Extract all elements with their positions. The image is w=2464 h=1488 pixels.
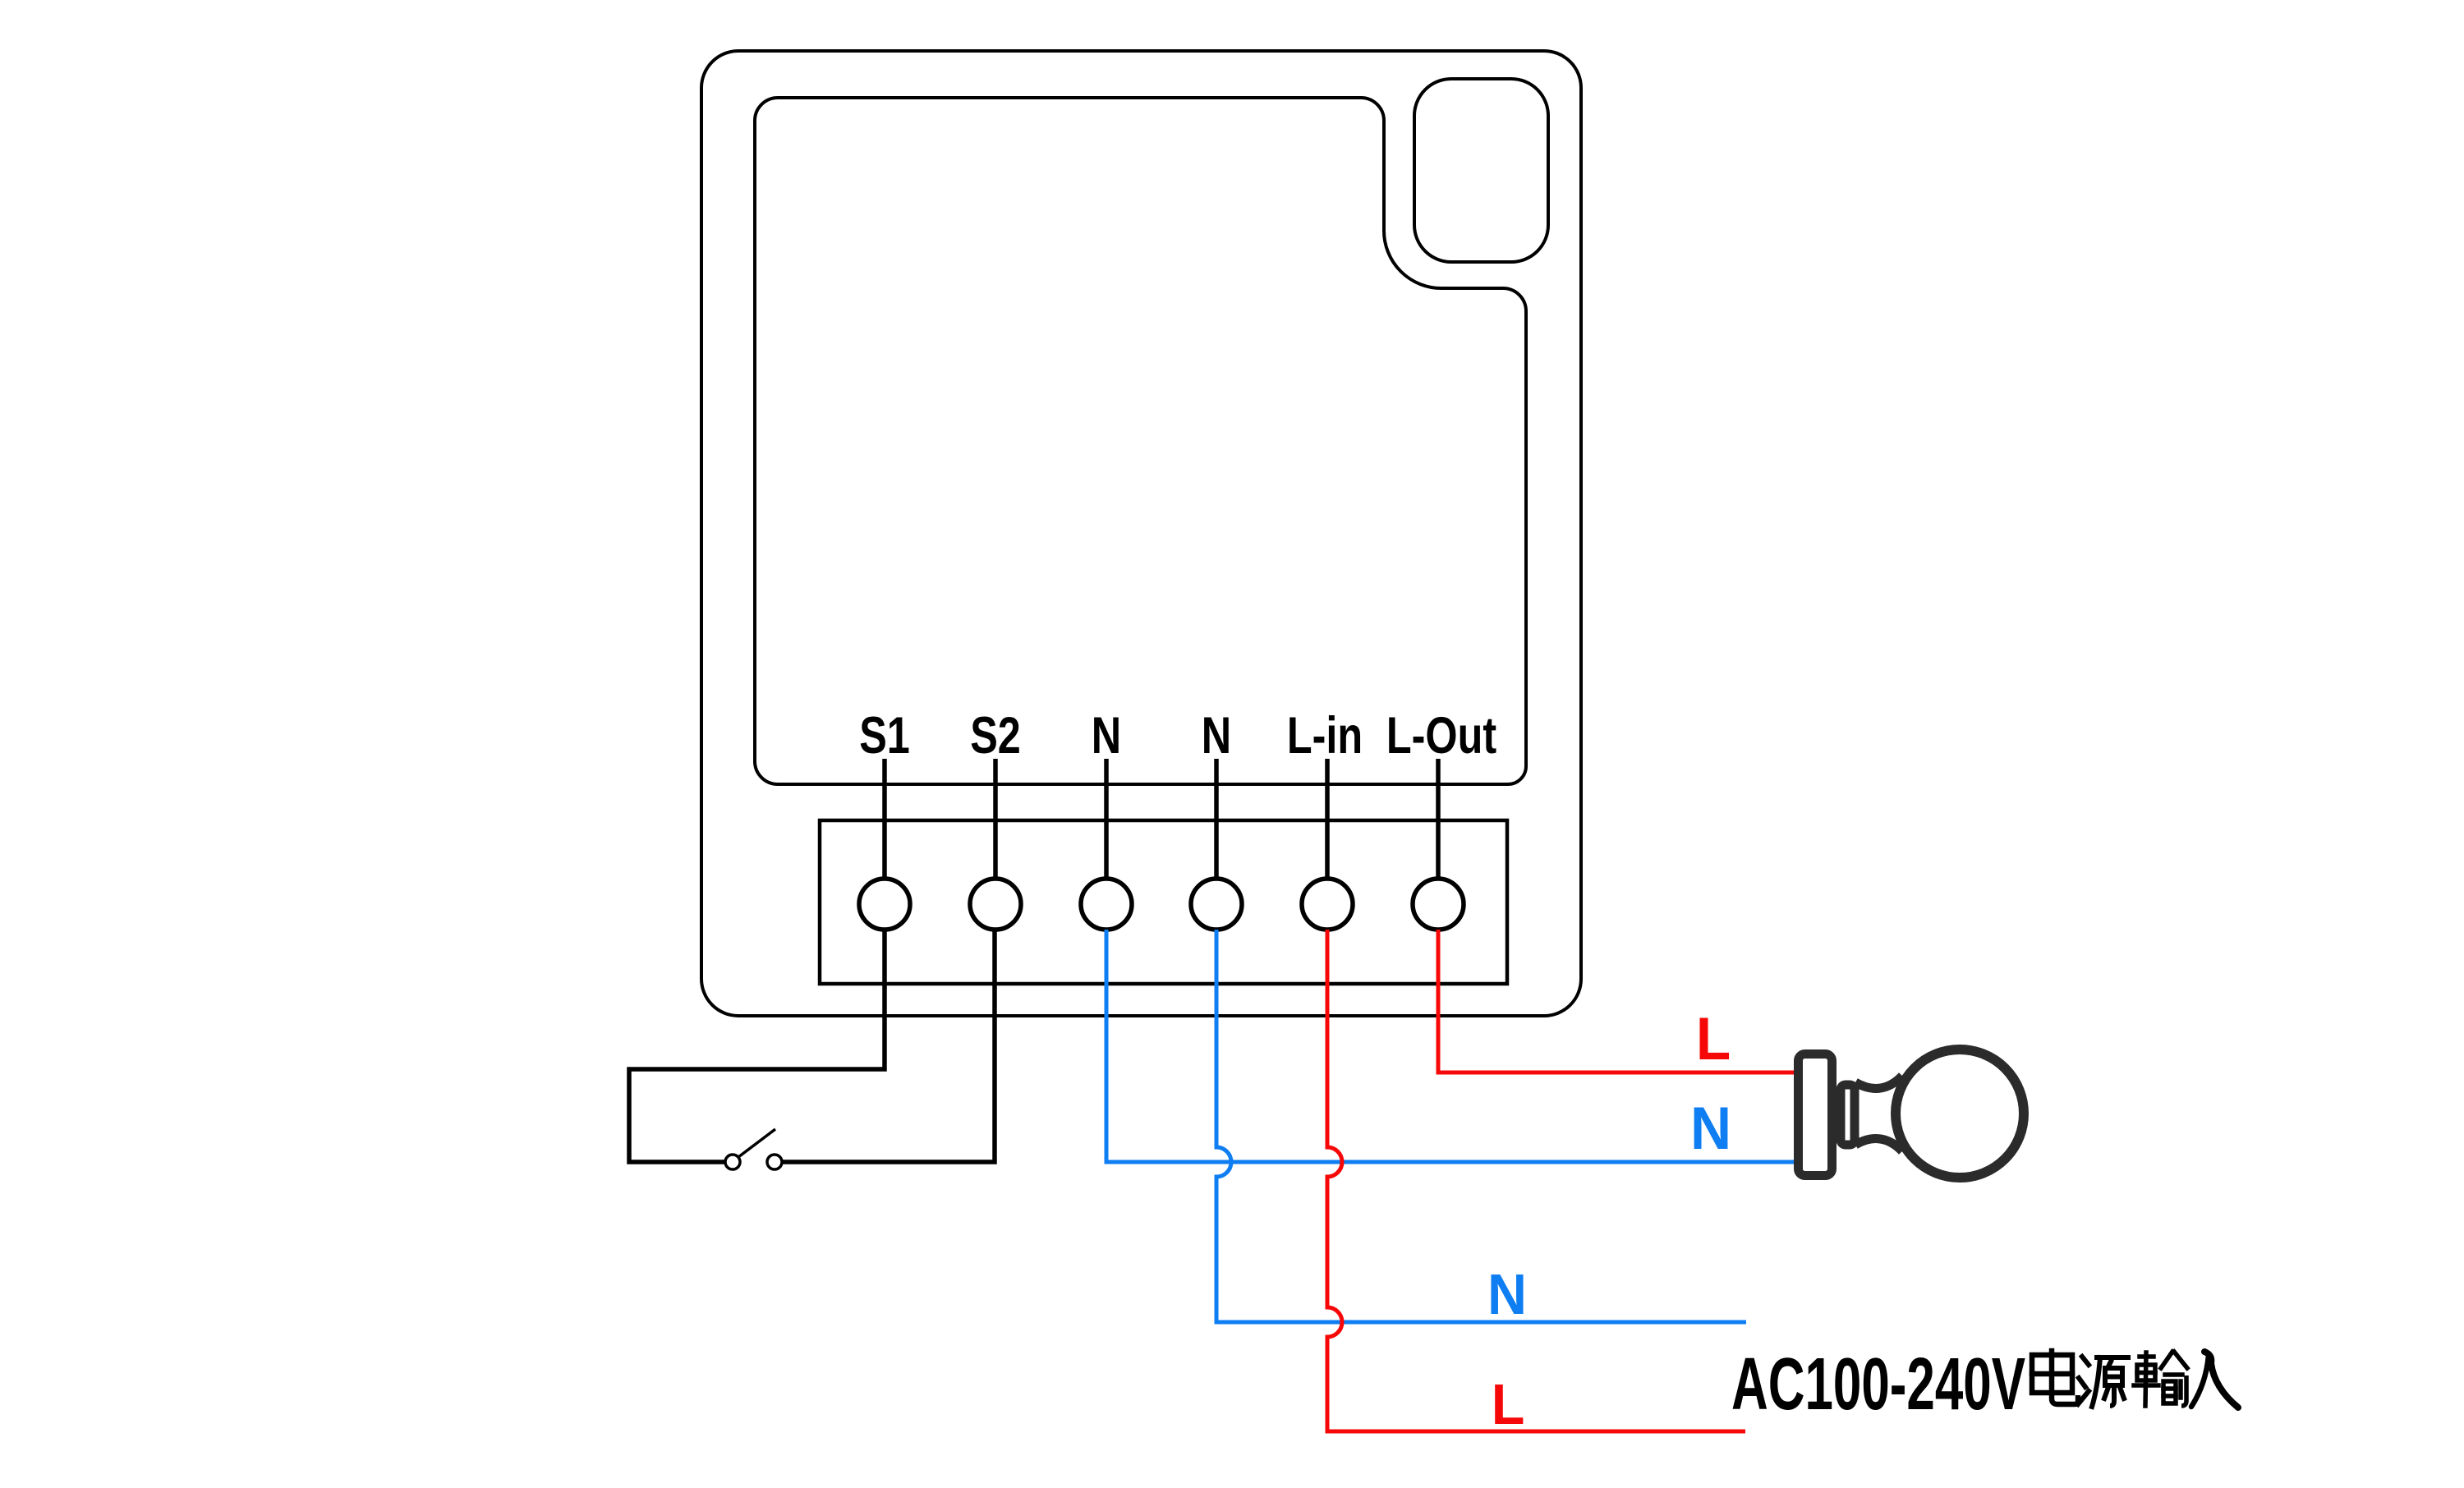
wire N (terminal 4) to AC neutral, with hop [1216,930,1746,1322]
AC supply caption: hanzi 输 [2134,1352,2187,1406]
svg-text:L-in: L-in [1287,707,1363,765]
svg-text:AC100-240V: AC100-240V [1731,1343,2025,1426]
wire L-in to AC live, with two hops [1327,930,1745,1431]
terminal screw S2 [970,879,1021,930]
svg-text:N: N [1202,707,1231,765]
svg-text:L-Out: L-Out [1386,707,1496,765]
svg-text:N: N [1487,1262,1527,1326]
terminal stub S2 [993,759,998,879]
AC supply caption: hanzi 入 [2191,1352,2238,1408]
relay module inner case outline [755,98,1526,784]
terminal stub N4 [1214,759,1219,879]
switch SW1 lever [738,1129,775,1157]
svg-text:N: N [1092,707,1121,765]
terminal screw L-in [1302,879,1353,930]
wire S1 to switch [629,930,885,1162]
AC supply caption: hanzi 电 [2032,1351,2078,1404]
terminal block [820,820,1507,984]
terminal screw N3 [1081,879,1132,930]
svg-text:L: L [1696,1006,1731,1072]
terminal screw N4 [1191,879,1242,930]
reset button capsule [1414,79,1548,262]
switch SW1 left contact [725,1155,740,1169]
svg-text:N: N [1690,1095,1731,1162]
wire N (terminal 3) to lamp neutral [1106,930,1795,1162]
terminal stub L-Out [1436,759,1441,879]
terminal stub N3 [1104,759,1109,879]
relay module outer case U1 [701,51,1581,1016]
switch SW1 right contact [767,1155,782,1169]
terminal screw S1 [859,879,910,930]
AC supply caption: hanzi 源 [2078,1357,2128,1407]
svg-text:S2: S2 [970,707,1021,765]
svg-text:L: L [1492,1372,1525,1436]
wire switch to S2 [782,930,995,1162]
lamp DS1 (bulb icon) [1799,1049,2025,1178]
terminal stub S1 [882,759,887,879]
svg-text:S1: S1 [859,707,910,765]
terminal stub L-in [1325,759,1330,879]
terminal screw L-Out [1413,879,1464,930]
wire L-Out to lamp live [1438,930,1795,1072]
